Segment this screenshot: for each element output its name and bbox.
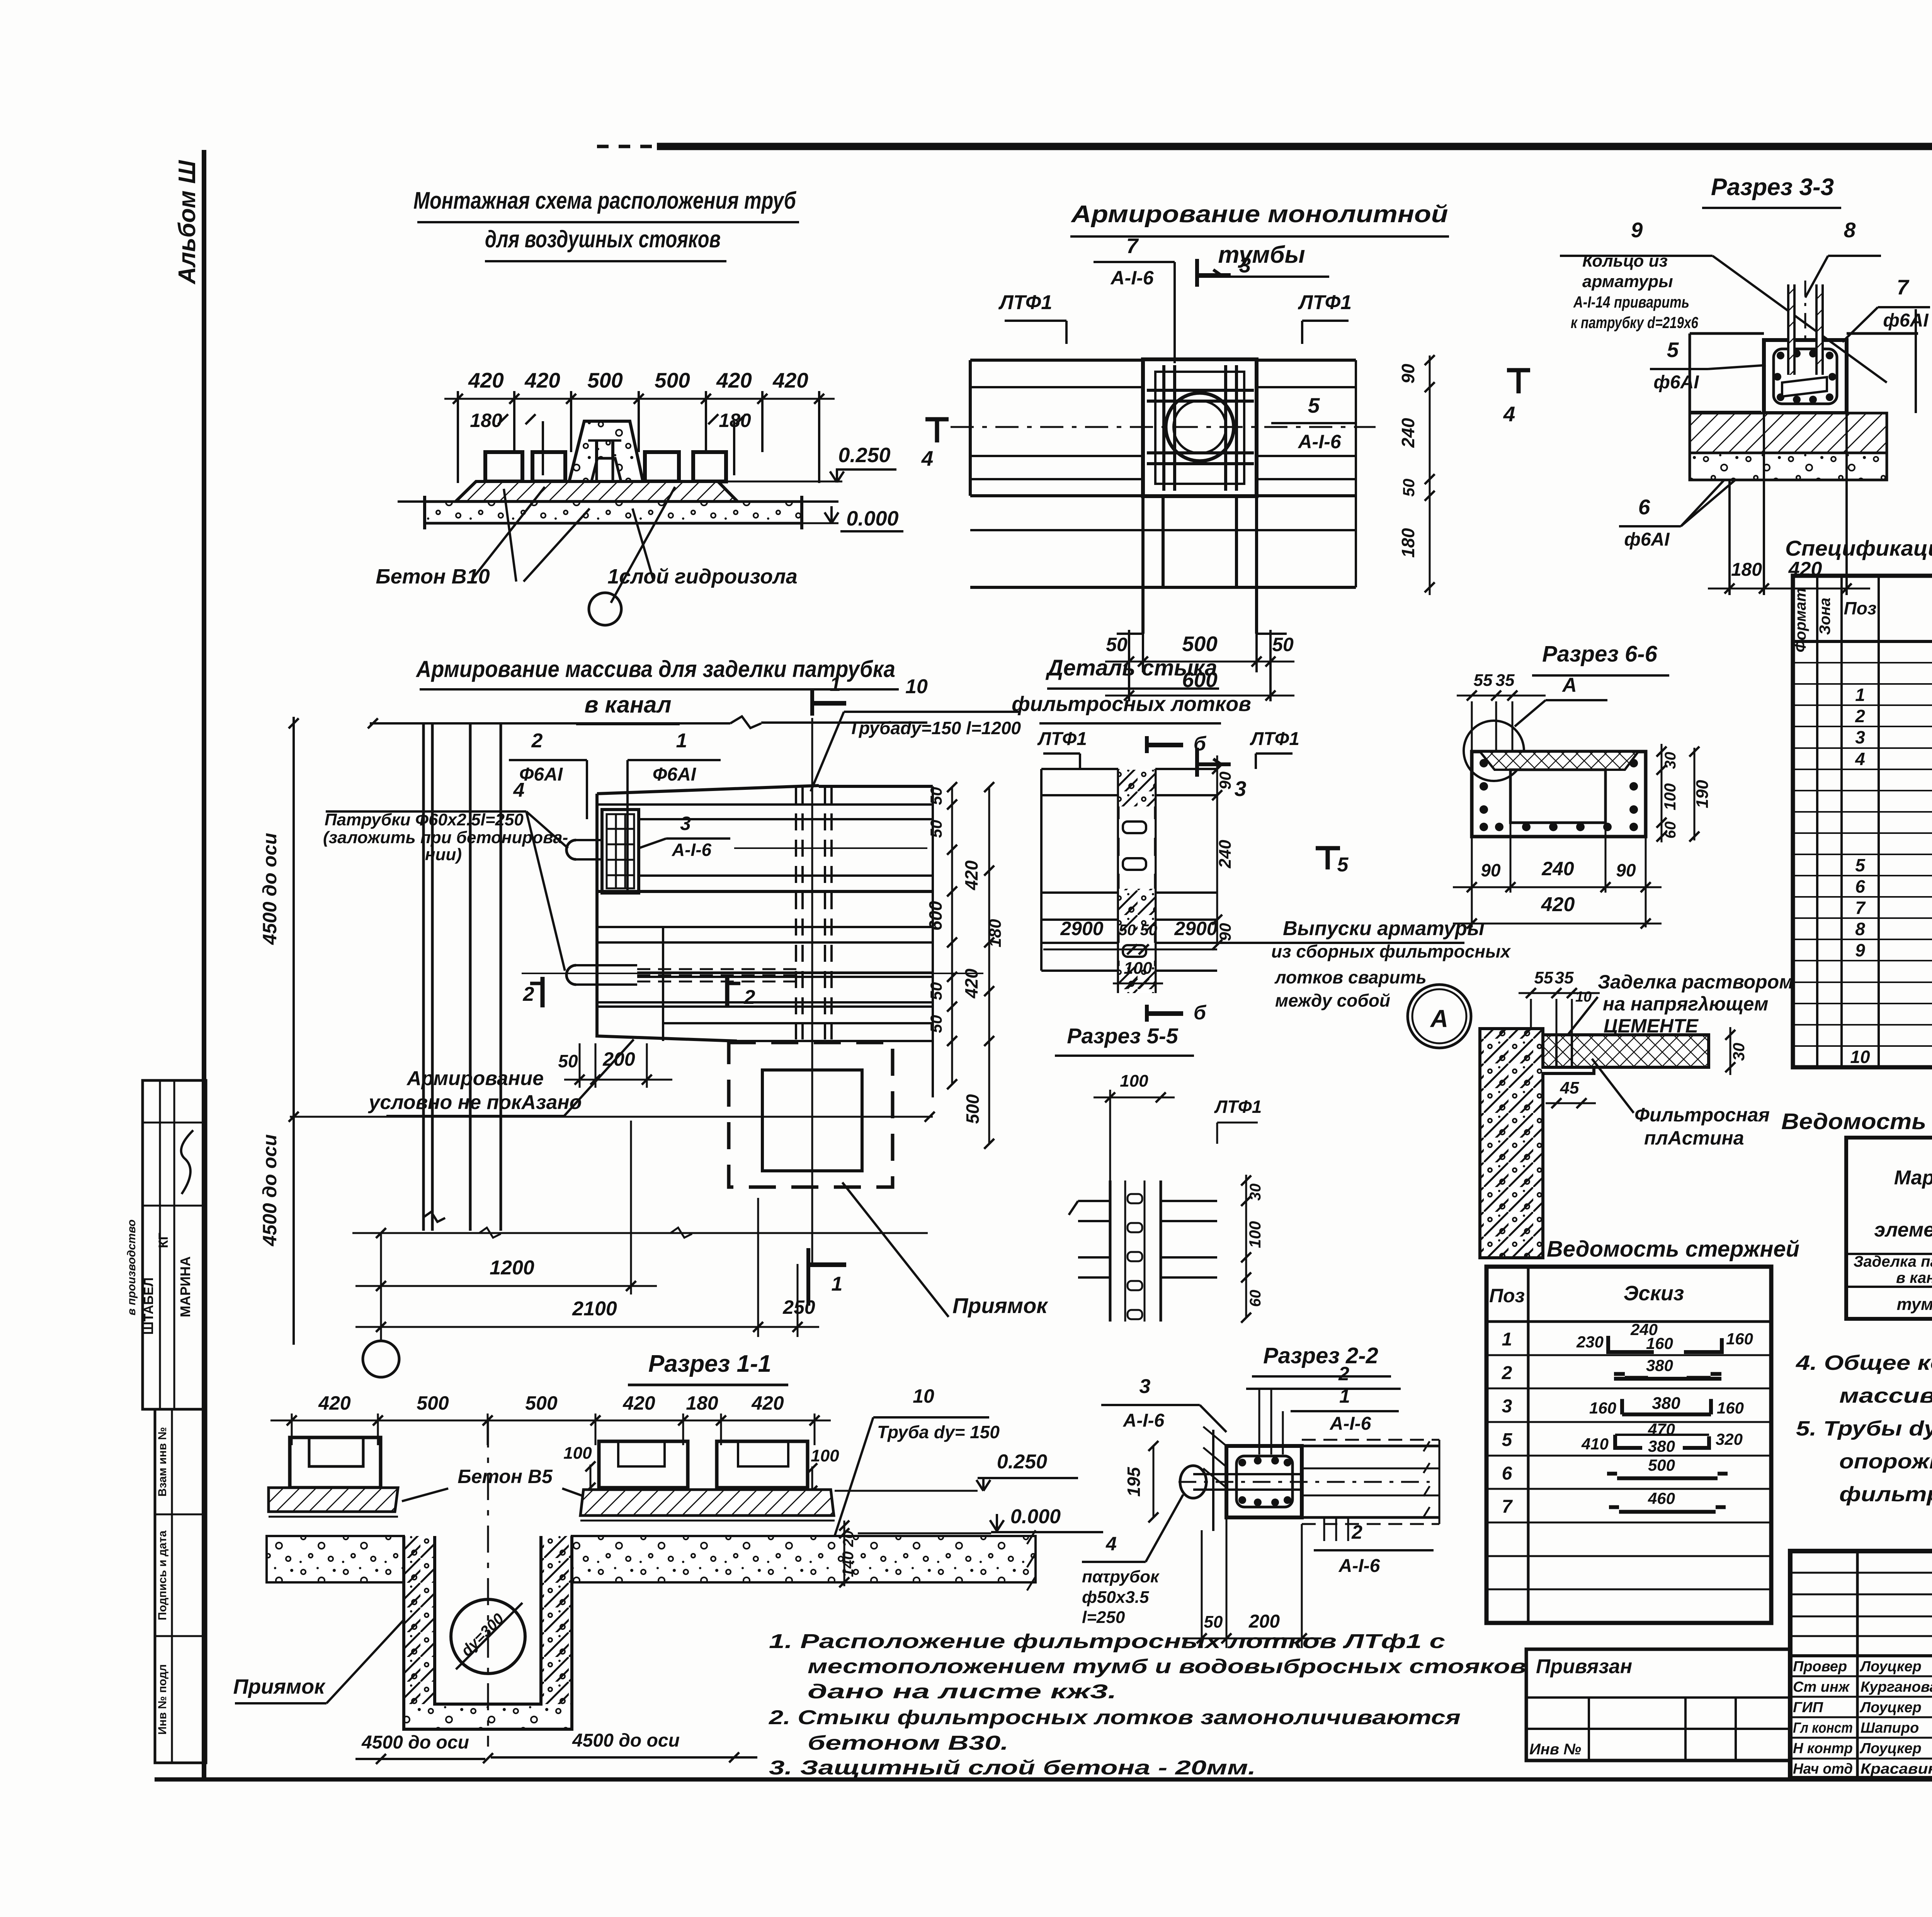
svg-text:Спецификация к схемам распол: Спецификация к схемам расположения армат… (1785, 536, 1932, 560)
massiv: section mark 1 bottom (806, 1248, 810, 1306)
spec table row lines (1793, 662, 1932, 663)
svg-text:180: 180 (470, 410, 502, 431)
svg-text:местоположением тумб и водо: местоположением тумб и водовыбросных сто… (808, 1655, 1526, 1678)
spec table frame (1793, 576, 1932, 1067)
svg-text:дано на листе кж3.: дано на листе кж3. (808, 1681, 1117, 1703)
montage: hydro insulation slab (456, 481, 738, 502)
svg-text:3: 3 (1239, 253, 1251, 277)
svg-text:160: 160 (1717, 1399, 1744, 1417)
svg-text:3: 3 (1139, 1375, 1151, 1398)
2-2 leader verticals (1259, 1389, 1260, 1454)
svg-text:55: 55 (1534, 968, 1553, 987)
svg-text:180: 180 (1731, 560, 1762, 580)
svg-text:Провер: Провер (1793, 1658, 1847, 1675)
svg-text:240: 240 (1398, 418, 1418, 448)
svg-text:Лоуцкер: Лоуцкер (1859, 1658, 1922, 1675)
svg-text:3. Защитный слой бетона - 20: 3. Защитный слой бетона - 20мм. (769, 1757, 1256, 1779)
svg-text:2: 2 (1502, 1363, 1512, 1383)
svg-text:250: 250 (782, 1296, 815, 1318)
svg-text:Привязан: Привязан (1536, 1655, 1632, 1678)
svg-text:420: 420 (772, 368, 808, 392)
svg-text:500: 500 (1648, 1456, 1675, 1474)
svg-text:ф6АI: ф6АI (1653, 372, 1699, 393)
6-6 top dims 55 35 (1457, 695, 1546, 697)
svg-text:Красавин: Красавин (1861, 1761, 1932, 1777)
svg-text:Выпуски армaтуры: Выпуски армaтуры (1283, 917, 1485, 940)
tumba plan: centre dash axis (951, 426, 1376, 428)
1-1 axis vertical (487, 1420, 489, 1747)
svg-text:60: 60 (1247, 1290, 1264, 1307)
joint: bottom dims (1043, 949, 1217, 951)
svg-text:200: 200 (1248, 1611, 1280, 1632)
svg-text:4500 до оси: 4500 до оси (572, 1730, 680, 1751)
svg-text:б: б (1194, 733, 1207, 755)
svg-text:100: 100 (1120, 1072, 1148, 1090)
svg-text:фильтросными блоками (см. ра: фильтросными блоками (см. разрез 1-1). (1839, 1483, 1932, 1506)
svg-text:А-I-6: А-I-6 (672, 840, 712, 860)
svg-text:опорожнении сооружения) зало: опорожнении сооружения) заложить в набет… (1839, 1450, 1932, 1473)
svg-text:2900: 2900 (1060, 918, 1103, 939)
svg-text:1. Расположение фильтросных: 1. Расположение фильтросных лотков ЛТф1 … (769, 1630, 1445, 1653)
massiv: right dim column 2 (988, 787, 990, 1144)
svg-text:1слой гидроизола: 1слой гидроизола (607, 565, 798, 588)
tumba plan: rebar bars in square (1162, 365, 1165, 491)
svg-text:4500 до оси: 4500 до оси (259, 1134, 281, 1246)
svg-text:3: 3 (1235, 777, 1247, 801)
detail circle A (1408, 985, 1471, 1048)
svg-text:1: 1 (830, 673, 841, 696)
3-3 left neighbour slab (1690, 332, 1764, 335)
svg-text:элемента: элемента (1874, 1219, 1932, 1241)
massiv: section 2-2 axis line (522, 973, 983, 974)
svg-text:9: 9 (1631, 218, 1643, 242)
svg-text:Бетон В5: Бетон В5 (457, 1466, 553, 1487)
sheet frame top border thick (657, 143, 1932, 150)
svg-text:7: 7 (1502, 1497, 1513, 1517)
svg-text:5: 5 (1337, 854, 1349, 876)
svg-text:2: 2 (744, 986, 755, 1009)
3-3 pipe with hatched walls (1788, 284, 1794, 375)
svg-text:ф50x3.5: ф50x3.5 (1082, 1588, 1149, 1607)
2-2 bottom dims 50 200 (1201, 1530, 1203, 1648)
montage: air riser pipe (595, 441, 598, 501)
6-6 inner cavity (1510, 770, 1605, 823)
svg-text:4500 до оси: 4500 до оси (259, 833, 281, 945)
svg-text:420: 420 (468, 368, 504, 392)
svg-text:2: 2 (531, 730, 543, 752)
tumba plan: right dims 90 240 50 180 (1429, 356, 1431, 595)
massiv: axis circle 1 (363, 1341, 399, 1377)
svg-text:А: А (1430, 1005, 1448, 1032)
svg-text:Патрубки Ф60x2.5l=250: Патрубки Ф60x2.5l=250 (325, 810, 524, 829)
massiv: bottom dims 1200 2100 250 (380, 1233, 382, 1341)
svg-text:Приямок: Приямок (233, 1675, 326, 1698)
1-1 pit pipe circle (451, 1599, 525, 1674)
svg-text:КГ: КГ (156, 1233, 171, 1248)
svg-text:нии): нии) (425, 845, 462, 864)
svg-text:60: 60 (1662, 822, 1679, 839)
svg-text:Заделка патрубка: Заделка патрубка (1854, 1253, 1932, 1270)
svg-text:плAстина: плAстина (1644, 1127, 1744, 1149)
svg-text:ф6АI: ф6АI (1624, 529, 1670, 550)
title block verticals (1856, 1551, 1859, 1778)
svg-text:Курганова: Курганова (1861, 1679, 1932, 1695)
svg-text:Разрез 6-6: Разрез 6-6 (1542, 641, 1658, 667)
svg-text:500: 500 (655, 368, 690, 392)
massiv: right dim column (951, 787, 953, 1084)
svg-text:между собой: между собой (1275, 990, 1390, 1010)
svg-text:420: 420 (622, 1392, 655, 1414)
massiv: pipe dashed verticals poz10 (795, 787, 797, 1039)
svg-text:Детaль стыка: Детaль стыка (1045, 655, 1217, 680)
svg-text:8: 8 (1844, 218, 1856, 242)
svg-text:4500 до оси: 4500 до оси (361, 1732, 469, 1753)
svg-text:7: 7 (1897, 275, 1910, 299)
detail: right dim 30 (1730, 1027, 1731, 1075)
svg-text:30: 30 (1662, 752, 1679, 769)
svg-text:2100: 2100 (572, 1298, 617, 1320)
svg-text:5: 5 (1667, 338, 1679, 362)
tumba plan: section mark 4 right (1507, 368, 1530, 373)
svg-text:50: 50 (927, 982, 945, 1000)
svg-text:к патрубку d=219x6: к патрубку d=219x6 (1571, 313, 1699, 332)
svg-text:Армировaние массива для зад: Армировaние массива для заделки патрубка (415, 656, 895, 682)
svg-text:Взам инв №: Взам инв № (156, 1427, 169, 1497)
massiv: dims 50 200 (579, 1043, 581, 1088)
svg-text:10: 10 (905, 675, 928, 698)
svg-text:ГИП: ГИП (1793, 1699, 1823, 1716)
svg-text:А-I-6: А-I-6 (1123, 1410, 1165, 1431)
svg-text:410: 410 (1581, 1435, 1609, 1453)
svg-text:Фильтроснaя: Фильтроснaя (1634, 1104, 1770, 1126)
svg-text:2: 2 (1338, 1363, 1349, 1385)
svg-text:3: 3 (680, 813, 691, 834)
6-6 mortar crosshatch band (1480, 752, 1638, 770)
svg-text:50: 50 (1106, 634, 1128, 655)
svg-text:0.000: 0.000 (846, 507, 898, 530)
massiv: dashed pit square (729, 1043, 893, 1187)
2-2 lotok strip right (1302, 1445, 1439, 1448)
svg-text:Н контр: Н контр (1793, 1740, 1853, 1757)
svg-text:100: 100 (811, 1446, 839, 1465)
tumba plan: section mark 3 top (1195, 259, 1199, 287)
svg-text:30: 30 (1247, 1184, 1264, 1201)
svg-text:Бетон В10: Бетон В10 (376, 565, 490, 588)
svg-text:180: 180 (686, 1392, 718, 1414)
svg-text:Разрез 3-3: Разрез 3-3 (1711, 174, 1834, 201)
svg-text:фильтросных лотков: фильтросных лотков (1012, 692, 1251, 716)
svg-text:90: 90 (1398, 364, 1418, 384)
tumba plan: lower band verticals (1141, 496, 1145, 587)
svg-text:10: 10 (1575, 989, 1592, 1005)
svg-text:в производство: в производство (125, 1220, 138, 1315)
6-6 body rect (1472, 752, 1646, 837)
massiv: pit inner rect (762, 1070, 862, 1171)
svg-text:Трубаdу=150 l=1200: Трубаdу=150 l=1200 (849, 718, 1021, 738)
joint: right dim 90 240 90 (1216, 755, 1218, 945)
svg-text:1: 1 (1502, 1329, 1512, 1350)
svg-text:Труба dy= 150: Труба dy= 150 (877, 1422, 1000, 1442)
svg-text:2: 2 (523, 983, 534, 1005)
3-3 ground hatch band (1690, 413, 1887, 453)
left stamp lower table (155, 1409, 206, 1763)
svg-text:Лоуцкер: Лоуцкер (1859, 1740, 1922, 1757)
1-1 pit walls (404, 1536, 435, 1704)
2-2 dim 195 (1153, 1446, 1155, 1517)
privyazan box (1526, 1649, 1790, 1761)
tumba plan: section mark 4 left (925, 417, 949, 422)
svg-text:180: 180 (986, 919, 1005, 947)
svg-text:Поз: Поз (1844, 598, 1877, 618)
svg-text:5: 5 (1502, 1430, 1513, 1450)
svg-text:10: 10 (913, 1385, 934, 1407)
svg-text:9: 9 (1855, 940, 1865, 960)
svg-text:20: 20 (840, 1531, 857, 1547)
svg-text:420: 420 (524, 368, 560, 392)
svg-text:бетоном В30.: бетоном В30. (808, 1732, 1009, 1754)
svg-text:420: 420 (1541, 893, 1575, 916)
svg-text:4: 4 (921, 446, 934, 470)
svg-text:А: А (1561, 674, 1577, 696)
svg-text:4: 4 (1105, 1533, 1117, 1555)
svg-text:420: 420 (716, 368, 752, 392)
5-5 top dim 100 (1094, 1097, 1175, 1099)
svg-text:Монтажная схема расположения: Монтажная схема расположения труб (413, 187, 796, 214)
svg-text:Подпись и дата: Подпись и дата (156, 1530, 169, 1620)
svg-text:3: 3 (1502, 1396, 1512, 1417)
title block outer frame (1790, 1551, 1932, 1778)
tumba plan: lotok band horizontals (970, 359, 1144, 362)
svg-text:0.250: 0.250 (997, 1451, 1047, 1473)
svg-text:2: 2 (1855, 706, 1865, 726)
svg-text:Ф6АI: Ф6АI (653, 764, 697, 785)
massiv: body outline (595, 794, 599, 1036)
svg-text:Ведомость расхода стали на о: Ведомость расхода стали на один элемент,… (1781, 1109, 1932, 1134)
svg-text:2. Стыки фильтросных лотков: 2. Стыки фильтросных лотков замоноличива… (769, 1706, 1461, 1729)
massiv: lower bands (637, 971, 933, 974)
svg-text:5: 5 (1308, 393, 1320, 417)
tumba plan: pipe circle (1166, 393, 1234, 461)
svg-text:230: 230 (1576, 1333, 1604, 1351)
svg-text:50: 50 (927, 787, 945, 805)
massiv: patrubok cage upper (602, 810, 639, 893)
svg-text:Армировaние монолитной: Армировaние монолитной (1070, 201, 1448, 228)
svg-text:100: 100 (1246, 1221, 1264, 1248)
detail: mortar gap lines (1555, 1035, 1558, 1067)
svg-text:1: 1 (1339, 1385, 1350, 1407)
svg-text:Альбом Ш: Альбом Ш (174, 160, 201, 285)
joint: column blocks (1117, 769, 1120, 993)
massiv: section mark 1 top (810, 689, 814, 716)
svg-text:1: 1 (676, 730, 687, 752)
svg-text:7: 7 (1126, 234, 1139, 258)
svg-text:Кольцо из: Кольцо из (1582, 252, 1668, 270)
massiv: canal wall verticals (422, 723, 425, 1231)
svg-text:190: 190 (1693, 780, 1712, 808)
3-3 bottom dims 180 420 (1728, 480, 1731, 595)
svg-text:Ф6АI: Ф6АI (519, 764, 563, 785)
montage: leader lines (504, 489, 516, 582)
svg-text:А-I-6: А-I-6 (1338, 1556, 1380, 1576)
svg-text:ЛТФ1: ЛТФ1 (1250, 729, 1299, 749)
svg-text:ЛТФ1: ЛТФ1 (1037, 729, 1087, 749)
svg-text:320: 320 (1716, 1430, 1743, 1448)
svg-text:условно не покAзано: условно не покAзано (367, 1091, 582, 1114)
bars table frame (1486, 1267, 1771, 1623)
1-1 top dim line (270, 1420, 831, 1422)
svg-text:50: 50 (1272, 634, 1294, 655)
top border dashed lead-in (597, 145, 657, 148)
massiv: band lines (639, 818, 933, 820)
svg-text:б: б (1194, 1002, 1207, 1024)
left stamp upper table (143, 1080, 206, 1409)
massiv: section line 1-1 vertical (811, 718, 813, 1264)
svg-text:100: 100 (1661, 783, 1679, 810)
1-1 left slab hatch (269, 1488, 398, 1512)
svg-text:МАРИНА: МАРИНА (177, 1256, 193, 1317)
svg-text:А-I-14 приварить: А-I-14 приварить (1573, 293, 1689, 311)
3-3 ground speckle band (1690, 453, 1887, 480)
svg-text:Формат: Формат (1792, 588, 1809, 653)
svg-text:Разрез 2-2: Разрез 2-2 (1263, 1343, 1378, 1368)
massiv: patrubok stub upper (566, 840, 576, 859)
svg-text:Ведомость стержней: Ведомость стержней (1547, 1237, 1799, 1262)
montage: concrete mound (569, 421, 643, 481)
svg-text:Эскиз: Эскиз (1624, 1282, 1684, 1305)
svg-text:500: 500 (1182, 632, 1218, 656)
svg-text:4: 4 (1855, 749, 1865, 769)
svg-text:Заделка рaствором: Заделка рaствором (1598, 971, 1793, 993)
svg-text:6: 6 (1855, 876, 1865, 896)
massiv: patrubok stub lower (566, 965, 576, 985)
svg-text:Гл конст: Гл конст (1793, 1720, 1853, 1736)
svg-text:4: 4 (1503, 402, 1515, 426)
svg-text:4. Общее количество тумб дл: 4. Общее количество тумб для воздушных с… (1796, 1351, 1932, 1374)
montage: lean concrete band (425, 502, 802, 523)
svg-text:3: 3 (1855, 727, 1865, 747)
svg-text:0.250: 0.250 (838, 444, 890, 467)
svg-text:Зона: Зона (1816, 598, 1833, 635)
svg-text:2: 2 (1351, 1521, 1362, 1543)
6-6 rebar dots (1480, 759, 1488, 767)
5-5 lotok lines (1078, 1200, 1110, 1202)
svg-text:30: 30 (1730, 1043, 1748, 1061)
svg-text:90: 90 (1216, 923, 1234, 941)
svg-text:Приямок: Приямок (952, 1293, 1048, 1318)
svg-text:лотков сварить: лотков сварить (1274, 967, 1427, 987)
joint: T5 section mark (1316, 846, 1340, 850)
svg-text:240: 240 (1216, 840, 1235, 869)
steel table frame (1846, 1138, 1932, 1319)
svg-text:Инв № подл: Инв № подл (156, 1664, 169, 1735)
massiv: section marks 2 (541, 977, 545, 1007)
montage: top dimension line (444, 398, 835, 400)
svg-text:из сборных фильтросных: из сборных фильтросных (1271, 941, 1511, 961)
svg-text:тумбы: тумбы (1218, 242, 1305, 268)
svg-text:ЛТФ1: ЛТФ1 (1298, 291, 1352, 314)
svg-text:Марка: Марка (1894, 1167, 1932, 1189)
svg-text:195: 195 (1124, 1466, 1144, 1497)
svg-text:50: 50 (558, 1051, 578, 1071)
svg-text:50: 50 (1204, 1613, 1223, 1631)
svg-text:500: 500 (587, 368, 623, 392)
svg-text:ЛТФ1: ЛТФ1 (1214, 1097, 1262, 1117)
6-6 bottom dims (1471, 837, 1473, 927)
svg-text:l=250: l=250 (1082, 1608, 1125, 1627)
svg-text:50: 50 (927, 820, 945, 838)
svg-text:420: 420 (318, 1392, 351, 1414)
svg-text:100: 100 (1124, 959, 1152, 978)
svg-text:Разрез 1-1: Разрез 1-1 (648, 1351, 771, 1377)
1-1 right channel blocks (599, 1441, 688, 1488)
svg-text:Шапиро: Шапиро (1861, 1720, 1919, 1736)
massiv: top boundary line (370, 722, 730, 725)
svg-text:160: 160 (1589, 1399, 1616, 1417)
svg-text:100: 100 (563, 1444, 592, 1463)
joint: lotok lines (1041, 768, 1118, 770)
svg-text:460: 460 (1648, 1489, 1675, 1507)
svg-text:240: 240 (1541, 858, 1574, 879)
svg-text:в канал: в канал (1896, 1269, 1932, 1286)
tumba plan: central square (1143, 359, 1257, 496)
svg-text:ШТАБЕЛ: ШТАБЕЛ (141, 1277, 156, 1335)
svg-text:Нач отд: Нач отд (1793, 1761, 1853, 1777)
svg-text:380: 380 (1648, 1437, 1675, 1455)
svg-text:500: 500 (525, 1392, 558, 1414)
1-1 left block channel (290, 1437, 381, 1488)
detail: filter plate crosshatch (1543, 1035, 1709, 1067)
2-2 left wall hatch (1212, 1430, 1214, 1531)
1-1 ground speckle left (267, 1536, 404, 1582)
3-3 right slab line (1847, 332, 1918, 335)
svg-text:90: 90 (1216, 772, 1234, 790)
title block thin upper rows (1790, 1572, 1932, 1574)
svg-text:Лоуцкер: Лоуцкер (1859, 1699, 1922, 1716)
svg-text:500: 500 (963, 1094, 983, 1124)
svg-text:ЛТФ1: ЛТФ1 (998, 291, 1052, 314)
svg-text:420: 420 (751, 1392, 784, 1414)
svg-text:0.000: 0.000 (1010, 1505, 1061, 1528)
svg-text:5. Трубы dу= 150мм (поз. 10): 5. Трубы dу= 150мм (поз. 10) для пропуск… (1796, 1417, 1932, 1440)
svg-text:5: 5 (1855, 855, 1866, 875)
svg-text:180: 180 (1398, 528, 1418, 558)
3-3 pedestal (1764, 340, 1847, 413)
svg-text:55: 55 (1474, 671, 1493, 690)
montage: extension verticals (457, 391, 459, 483)
massiv: left long dim line 4500 (293, 717, 295, 1345)
svg-text:380: 380 (1646, 1356, 1673, 1374)
svg-text:200: 200 (602, 1048, 635, 1070)
svg-text:420: 420 (961, 860, 981, 890)
6-6 right dims 30 100 60 190 (1661, 744, 1663, 842)
svg-text:Поз: Поз (1489, 1285, 1525, 1306)
svg-text:А-I-6: А-I-6 (1330, 1414, 1371, 1434)
svg-text:1200: 1200 (490, 1257, 534, 1279)
3-3 anchor plate (1782, 377, 1827, 396)
svg-text:на нaпрягλющем: на нaпрягλющем (1603, 993, 1768, 1015)
1-1 ground speckle right (572, 1536, 1036, 1582)
sheet frame bottom border (155, 1778, 1932, 1782)
svg-text:500: 500 (417, 1392, 449, 1414)
svg-text:для воздушных стояков: для воздушных стояков (485, 226, 721, 253)
svg-text:90: 90 (1616, 860, 1636, 880)
tumba plan: lower horizontals (970, 529, 1356, 531)
joint: section b bottom (1145, 1005, 1149, 1022)
massiv: horizontal axis B with breaks (352, 1232, 928, 1234)
svg-text:арматуры: арматуры (1582, 272, 1673, 291)
svg-text:160: 160 (1726, 1330, 1753, 1348)
tumba plan: bottom dims 50 500 50 (1128, 630, 1130, 701)
